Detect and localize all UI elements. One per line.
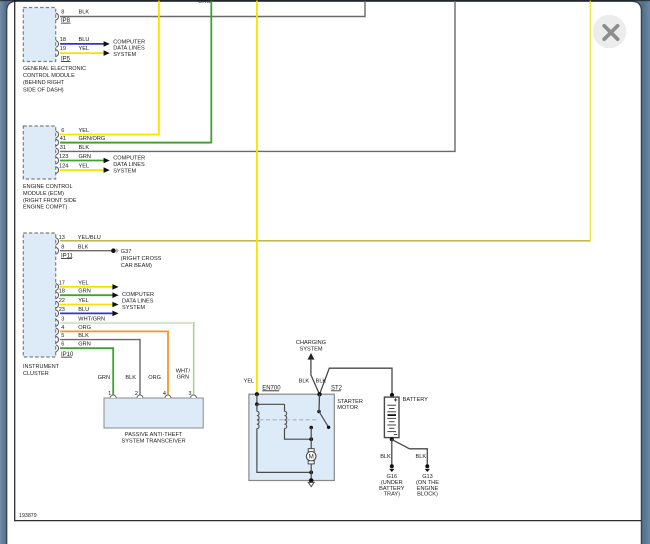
svg-text:(RIGHT CROSS: (RIGHT CROSS bbox=[121, 256, 162, 262]
svg-text:SIDE OF DASH): SIDE OF DASH) bbox=[23, 87, 64, 93]
svg-text:SYSTEM: SYSTEM bbox=[299, 347, 322, 353]
svg-text:31: 31 bbox=[60, 145, 66, 151]
svg-text:YEL/BLU: YEL/BLU bbox=[78, 235, 101, 241]
svg-text:8: 8 bbox=[61, 244, 64, 250]
svg-text:GENERAL ELECTRONIC: GENERAL ELECTRONIC bbox=[23, 66, 86, 72]
svg-text:GRN/ORG: GRN/ORG bbox=[79, 136, 106, 142]
svg-text:SYSTEM: SYSTEM bbox=[113, 169, 136, 175]
svg-text:DATA LINES: DATA LINES bbox=[122, 298, 154, 304]
svg-text:BATTERY: BATTERY bbox=[403, 397, 429, 403]
svg-text:BLK: BLK bbox=[416, 454, 427, 460]
svg-text:CAR BEAM): CAR BEAM) bbox=[121, 263, 152, 269]
svg-text:BLOCK): BLOCK) bbox=[417, 492, 438, 498]
svg-text:ENGINE CONTROL: ENGINE CONTROL bbox=[23, 184, 73, 190]
svg-text:GRN: GRN bbox=[98, 375, 110, 381]
svg-text:YEL: YEL bbox=[78, 298, 89, 304]
svg-text:G37: G37 bbox=[121, 249, 132, 255]
svg-text:PASSIVE ANTI-THEFT: PASSIVE ANTI-THEFT bbox=[125, 432, 183, 438]
svg-text:DATA LINES: DATA LINES bbox=[113, 46, 145, 52]
svg-text:17: 17 bbox=[59, 280, 65, 286]
svg-text:BLK: BLK bbox=[316, 379, 327, 385]
svg-text:ORG: ORG bbox=[148, 375, 161, 381]
svg-text:MODULE (ECM): MODULE (ECM) bbox=[23, 191, 64, 197]
svg-text:4: 4 bbox=[61, 325, 64, 331]
svg-text:WHT/: WHT/ bbox=[176, 368, 191, 374]
svg-text:COMPUTER: COMPUTER bbox=[122, 292, 154, 298]
svg-text:BLK: BLK bbox=[78, 244, 89, 250]
svg-text:19: 19 bbox=[60, 46, 66, 52]
svg-text:CLUSTER: CLUSTER bbox=[23, 371, 49, 377]
svg-text:23: 23 bbox=[59, 307, 65, 313]
svg-text:BLK: BLK bbox=[78, 333, 89, 339]
svg-text:ENGINE COMPT): ENGINE COMPT) bbox=[23, 205, 67, 211]
svg-text:GRN: GRN bbox=[78, 342, 90, 348]
svg-text:MOTOR: MOTOR bbox=[337, 405, 358, 411]
svg-text:WHT/GRN: WHT/GRN bbox=[78, 316, 105, 322]
svg-text:BLK: BLK bbox=[299, 379, 310, 385]
svg-text:193879: 193879 bbox=[19, 513, 37, 519]
svg-text:GRN: GRN bbox=[177, 374, 189, 380]
svg-text:BLK: BLK bbox=[79, 145, 90, 151]
svg-text:SYSTEM TRANSCEIVER: SYSTEM TRANSCEIVER bbox=[121, 438, 185, 444]
svg-text:123: 123 bbox=[59, 154, 68, 160]
svg-text:6: 6 bbox=[61, 128, 64, 134]
svg-text:DATA LINES: DATA LINES bbox=[113, 162, 145, 168]
svg-text:(BEHIND RIGHT: (BEHIND RIGHT bbox=[23, 80, 65, 86]
svg-text:18: 18 bbox=[60, 37, 66, 43]
svg-text:COMPUTER: COMPUTER bbox=[113, 39, 145, 45]
svg-text:6: 6 bbox=[61, 342, 64, 348]
svg-text:TRAY): TRAY) bbox=[384, 492, 401, 498]
svg-text:SYSTEM: SYSTEM bbox=[113, 52, 136, 58]
svg-text:124: 124 bbox=[59, 164, 68, 170]
svg-text:YEL: YEL bbox=[244, 379, 255, 385]
svg-text:INSTRUMENT: INSTRUMENT bbox=[23, 364, 60, 370]
svg-text:BLK: BLK bbox=[380, 454, 391, 460]
svg-text:YEL: YEL bbox=[79, 164, 90, 170]
svg-text:22: 22 bbox=[59, 298, 65, 304]
svg-text:(RIGHT FRONT SIDE: (RIGHT FRONT SIDE bbox=[23, 198, 77, 204]
svg-text:YEL: YEL bbox=[79, 128, 90, 134]
svg-text:M: M bbox=[309, 454, 314, 461]
svg-text:3: 3 bbox=[61, 316, 64, 322]
svg-text:BLU: BLU bbox=[79, 37, 90, 43]
svg-text:BLU: BLU bbox=[78, 307, 89, 313]
svg-text:ORG: ORG bbox=[78, 325, 91, 331]
svg-text:BLK: BLK bbox=[79, 10, 90, 16]
svg-text:41: 41 bbox=[60, 136, 66, 142]
svg-text:18: 18 bbox=[59, 289, 65, 295]
svg-text:8: 8 bbox=[61, 10, 64, 16]
svg-text:CHARGING: CHARGING bbox=[296, 340, 326, 346]
svg-text:SYSTEM: SYSTEM bbox=[122, 305, 145, 311]
svg-text:COMPUTER: COMPUTER bbox=[113, 155, 145, 161]
svg-text:BLK: BLK bbox=[125, 375, 136, 381]
svg-text:YEL: YEL bbox=[79, 46, 90, 52]
svg-text:13: 13 bbox=[59, 235, 65, 241]
svg-text:CONTROL MODULE: CONTROL MODULE bbox=[23, 73, 75, 79]
svg-text:STARTER: STARTER bbox=[337, 399, 363, 405]
svg-text:GRN: GRN bbox=[78, 289, 90, 295]
svg-text:5: 5 bbox=[61, 333, 64, 339]
svg-text:GRN: GRN bbox=[79, 154, 91, 160]
svg-text:YEL: YEL bbox=[78, 280, 89, 286]
